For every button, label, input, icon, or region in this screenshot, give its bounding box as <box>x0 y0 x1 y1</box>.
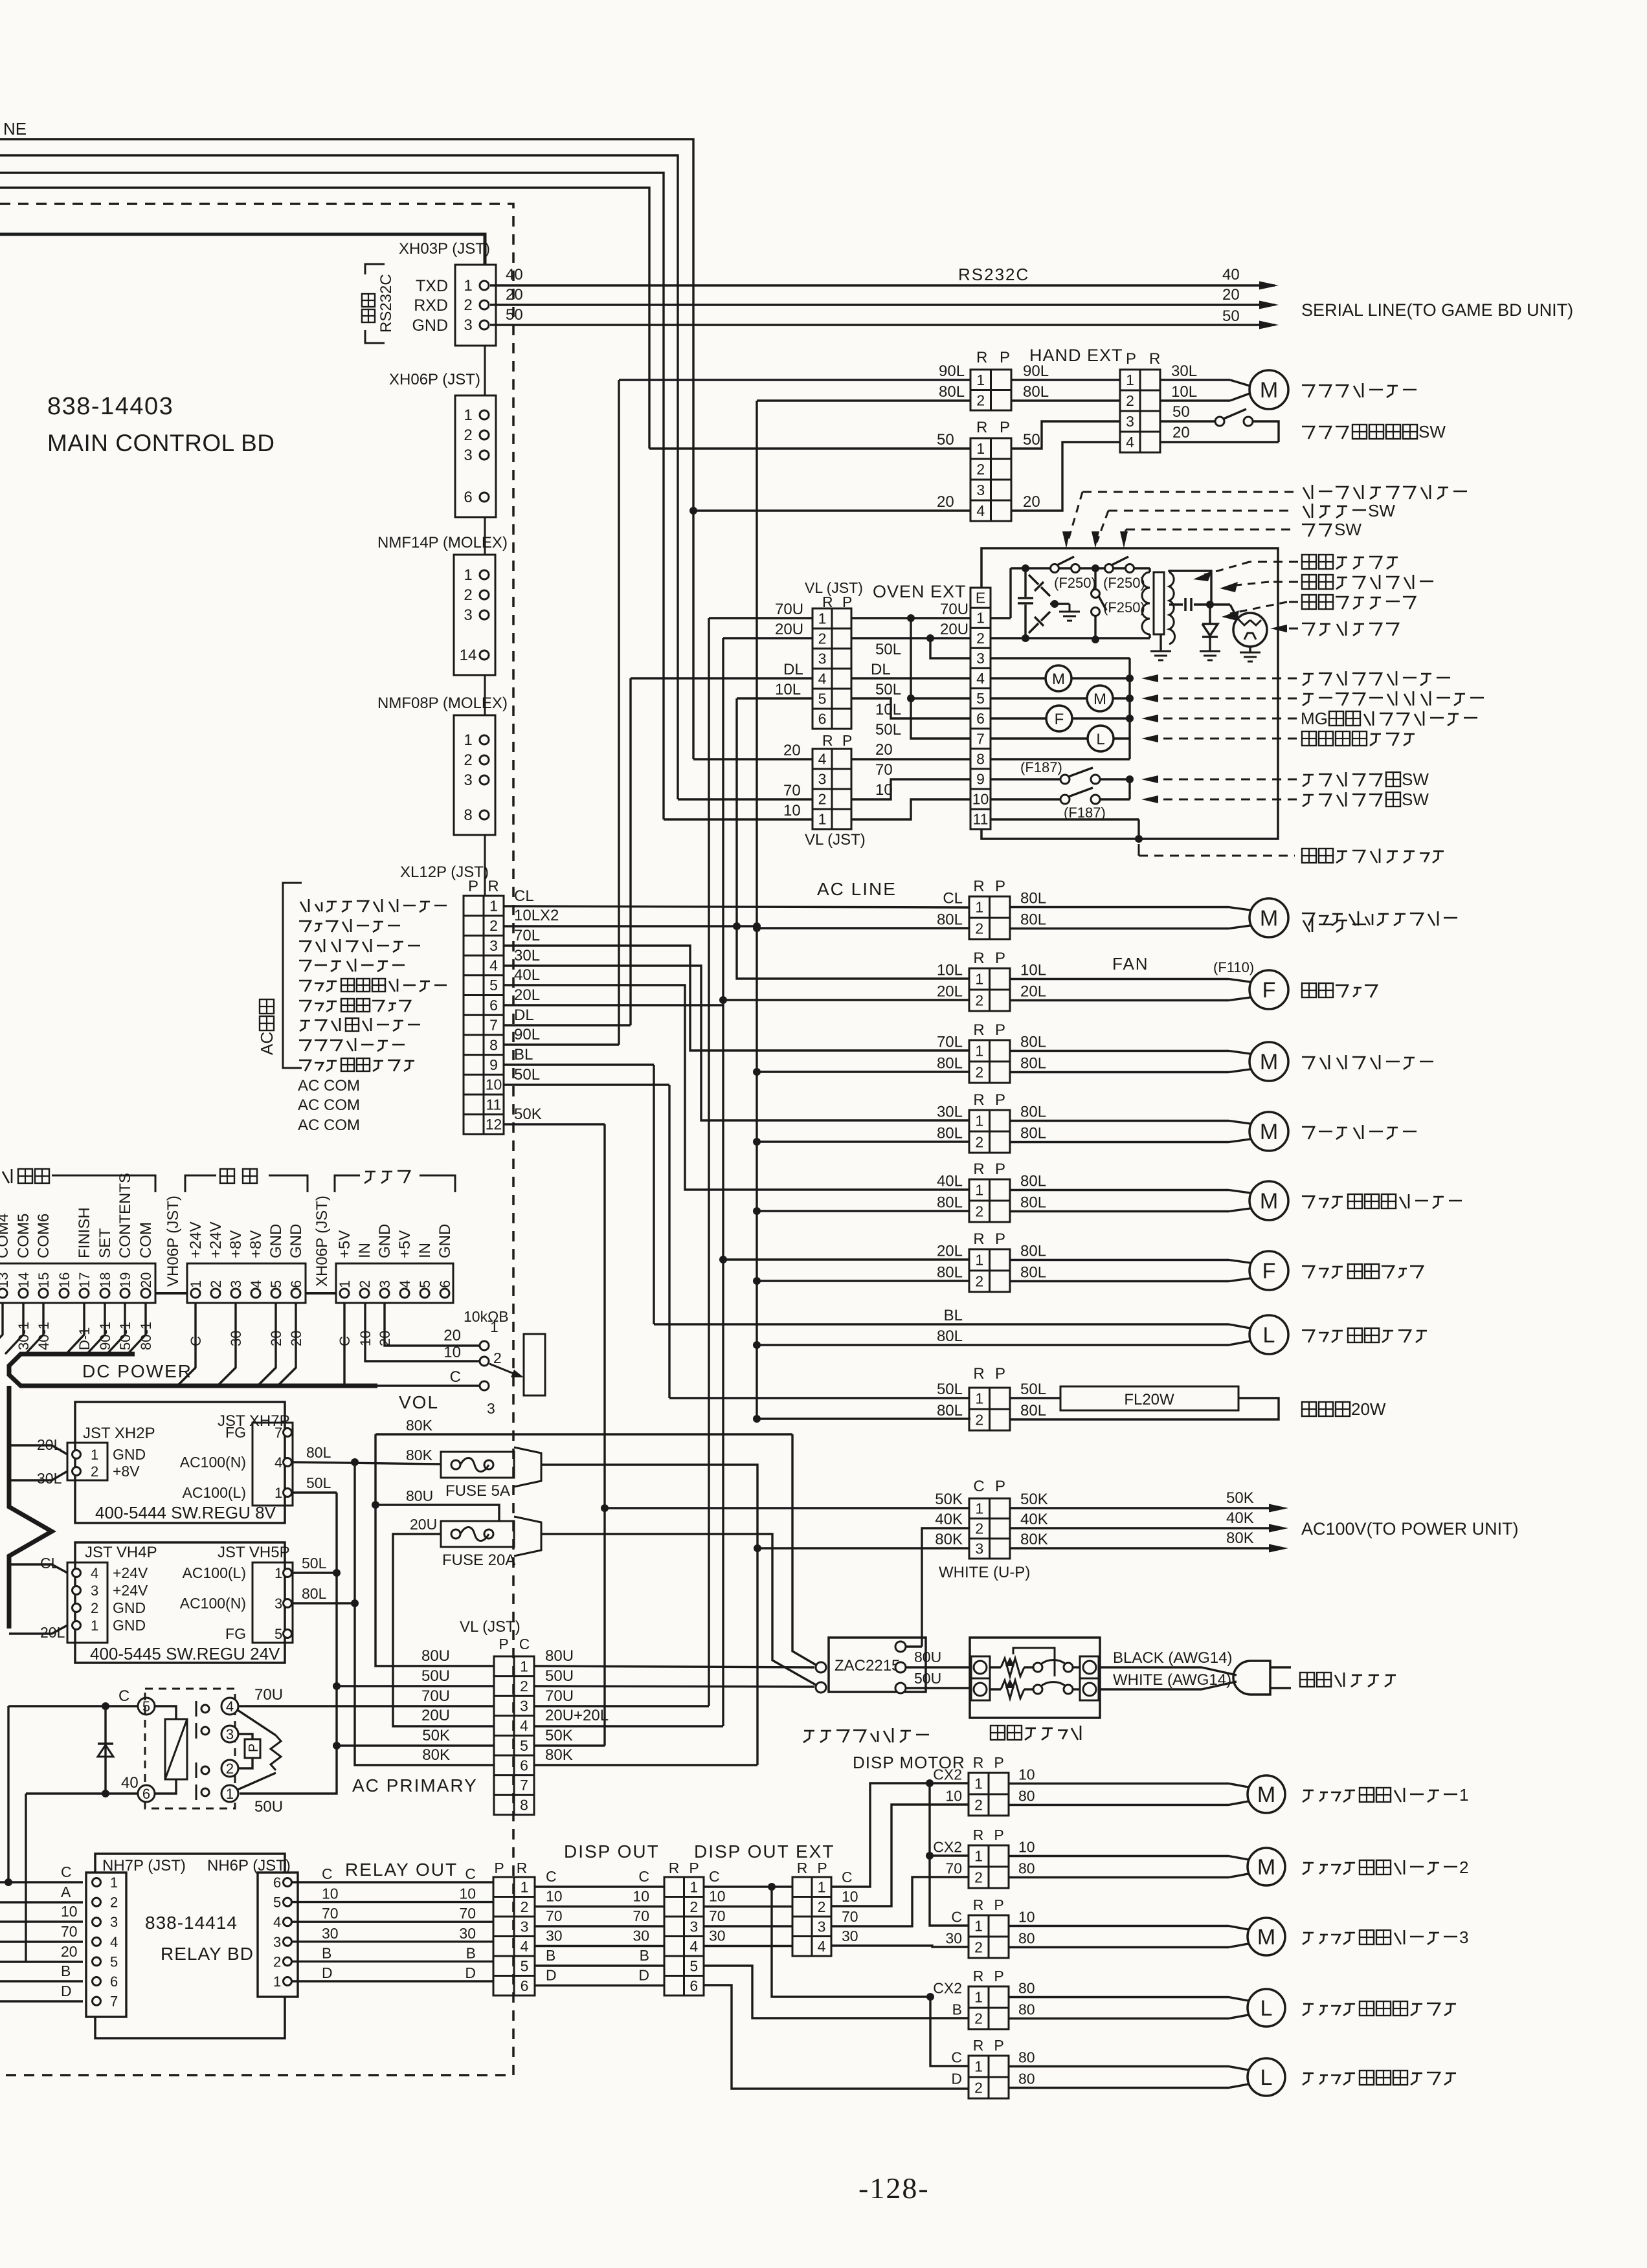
wire 50 link <box>1011 421 1120 449</box>
svg-text:3: 3 <box>377 1280 393 1288</box>
svg-text:6: 6 <box>273 1874 281 1891</box>
svg-text:1: 1 <box>976 440 985 457</box>
svg-text:M: M <box>1260 1189 1278 1214</box>
wire B to lamp1 <box>704 1966 969 2018</box>
svg-text:XH06P (JST): XH06P (JST) <box>389 371 480 388</box>
svg-text:2: 2 <box>689 1898 698 1915</box>
svg-text:VOL: VOL <box>399 1392 439 1412</box>
label ファンモーター <box>299 921 311 932</box>
svg-text:50K: 50K <box>422 1727 450 1744</box>
svg-text:AC PRIMARY: AC PRIMARY <box>352 1775 478 1795</box>
svg-text:C: C <box>546 1868 557 1885</box>
svg-text:838-14403: 838-14403 <box>47 393 174 420</box>
svg-text:WHITE (U-P): WHITE (U-P) <box>939 1564 1030 1581</box>
wire serial line 1 <box>0 139 693 759</box>
svg-text:E: E <box>976 590 985 606</box>
svg-text:20: 20 <box>61 1943 78 1960</box>
switch F187 door open <box>991 798 1061 800</box>
svg-text:C: C <box>61 1863 72 1880</box>
capacitor diagonal 1 <box>1029 575 1038 584</box>
leader レンジドアモーター <box>1159 678 1297 680</box>
svg-text:AC100(N): AC100(N) <box>180 1454 246 1471</box>
svg-text:F: F <box>1262 1259 1276 1284</box>
svg-text:80L: 80L <box>937 911 963 929</box>
svg-text:C: C <box>951 2049 962 2066</box>
svg-text:5: 5 <box>689 1957 698 1974</box>
svg-text:80L: 80L <box>1020 1243 1046 1260</box>
svg-text:1: 1 <box>226 1786 234 1802</box>
svg-text:80L: 80L <box>937 1125 963 1142</box>
svg-text:80: 80 <box>1018 2001 1035 2018</box>
svg-text:P: P <box>995 1230 1005 1248</box>
svg-text:2: 2 <box>1459 1858 1468 1877</box>
switch contacts <box>1033 1663 1042 1672</box>
svg-text:80L: 80L <box>939 383 965 401</box>
svg-text:IN: IN <box>356 1243 374 1258</box>
svg-text:30L: 30L <box>514 947 540 964</box>
svg-text:80L: 80L <box>937 1194 963 1212</box>
svg-text:4: 4 <box>818 1938 826 1955</box>
svg-text:14: 14 <box>16 1273 32 1288</box>
wire serial line 4 <box>0 188 649 449</box>
svg-text:R: R <box>797 1860 808 1876</box>
svg-text:6: 6 <box>110 1973 118 1990</box>
box microwave oven unit <box>981 548 1278 839</box>
svg-text:2: 2 <box>975 992 983 1009</box>
svg-text:P: P <box>995 1478 1005 1495</box>
svg-text:1: 1 <box>110 1874 118 1891</box>
svg-text:3: 3 <box>520 1698 528 1715</box>
svg-text:R: R <box>822 732 833 749</box>
label ハンドモーター <box>299 1040 311 1051</box>
svg-text:DL: DL <box>871 661 891 678</box>
svg-text:40: 40 <box>1222 266 1240 283</box>
label レンジ扉モーター <box>300 1020 310 1022</box>
svg-text:6: 6 <box>142 1786 150 1802</box>
svg-text:5: 5 <box>110 1953 118 1970</box>
svg-text:2: 2 <box>974 2080 983 2096</box>
svg-text:1: 1 <box>975 1043 983 1060</box>
capacitor diagonal 2 <box>1029 623 1038 633</box>
svg-text:2: 2 <box>493 1350 502 1366</box>
svg-text:10L: 10L <box>875 701 901 718</box>
wire 20L fan <box>719 996 727 1004</box>
svg-text:40L: 40L <box>937 1173 963 1190</box>
svg-text:70: 70 <box>61 1923 78 1940</box>
svg-text:+24V: +24V <box>113 1564 148 1581</box>
wire VL row2 50U right <box>535 1686 814 1687</box>
svg-text:P: P <box>995 950 1005 967</box>
svg-text:NE: NE <box>3 119 27 139</box>
svg-text:50L: 50L <box>302 1555 327 1572</box>
svg-text:B: B <box>640 1947 649 1964</box>
switch hand position SW <box>1160 420 1216 422</box>
svg-text:80K: 80K <box>422 1746 450 1764</box>
svg-text:P: P <box>1000 349 1010 366</box>
svg-text:1: 1 <box>1126 372 1134 388</box>
wire D to lamp2 <box>704 1985 969 2089</box>
wire 80L conn6 <box>753 1277 761 1285</box>
svg-text:1: 1 <box>975 971 983 988</box>
svg-text:5: 5 <box>142 1698 150 1715</box>
svg-text:2: 2 <box>464 427 472 444</box>
svg-text:D-1: D-1 <box>76 1328 93 1350</box>
svg-text:80L: 80L <box>1020 1264 1046 1282</box>
svg-text:3: 3 <box>464 447 472 464</box>
connector VH4P <box>67 1562 107 1643</box>
label アームモーター <box>299 961 311 972</box>
bracket AC出力 <box>283 883 302 1068</box>
svg-text:B: B <box>952 2001 962 2018</box>
svg-text:1: 1 <box>975 1500 983 1517</box>
svg-text:3: 3 <box>976 482 985 498</box>
svg-text:DISP OUT: DISP OUT <box>564 1841 660 1862</box>
switch right pads <box>1080 1656 1099 1678</box>
svg-text:2: 2 <box>489 917 498 934</box>
label カップ取出ランプ <box>299 1060 311 1071</box>
switch F250 vertical <box>1094 568 1096 589</box>
svg-text:D: D <box>61 1983 72 1999</box>
svg-text:10: 10 <box>61 1903 78 1920</box>
transformer HV <box>1154 572 1164 634</box>
bus DC POWER thick <box>9 1354 377 1386</box>
svg-text:B: B <box>466 1944 476 1961</box>
svg-text:1: 1 <box>975 1182 983 1199</box>
leader サーマルプロテクター <box>1082 491 1295 493</box>
svg-text:R: R <box>1149 350 1160 368</box>
svg-text:P: P <box>995 1021 1005 1039</box>
svg-text:COM4: COM4 <box>0 1214 12 1258</box>
svg-text:50L: 50L <box>875 681 901 698</box>
wires VH06P to bus <box>177 1303 196 1386</box>
svg-text:80L: 80L <box>1020 890 1046 907</box>
wire magnetron top lead <box>1237 617 1239 620</box>
svg-text:NMF08P (MOLEX): NMF08P (MOLEX) <box>377 695 508 712</box>
svg-text:2: 2 <box>818 630 827 647</box>
relay box dashed <box>145 1689 235 1808</box>
svg-text:70: 70 <box>322 1905 339 1922</box>
svg-text:4: 4 <box>818 751 827 768</box>
boundary MAIN CONTROL BD (dashed) <box>0 204 513 2075</box>
noise filter ZAC2215 <box>829 1638 926 1692</box>
svg-text:SERIAL LINE(TO GAME BD UNIT): SERIAL LINE(TO GAME BD UNIT) <box>1301 300 1573 320</box>
svg-text:VL (JST): VL (JST) <box>805 579 863 596</box>
svg-text:1: 1 <box>91 1447 98 1463</box>
svg-text:R: R <box>973 1021 984 1039</box>
svg-text:C: C <box>118 1687 129 1705</box>
svg-text:10LX2: 10LX2 <box>514 907 559 924</box>
svg-text:80L: 80L <box>1020 1125 1046 1142</box>
label ハンド位置検出 SW <box>1302 427 1314 439</box>
svg-text:CX2: CX2 <box>933 1980 962 1997</box>
wire relay C to relay bd <box>7 1706 9 1882</box>
label 電源スイッチ <box>991 1726 1005 1740</box>
svg-text:70: 70 <box>945 1860 962 1877</box>
svg-text:50U: 50U <box>914 1670 941 1687</box>
svg-text:80K: 80K <box>406 1447 433 1463</box>
svg-text:5: 5 <box>521 1957 529 1974</box>
svg-text:20L: 20L <box>514 986 540 1004</box>
wire oven row2 bus <box>991 637 1150 639</box>
svg-text:ZAC2215: ZAC2215 <box>835 1657 900 1674</box>
svg-text:P: P <box>994 1754 1003 1771</box>
leader マグネトロン <box>1288 628 1298 630</box>
svg-text:C: C <box>322 1865 333 1882</box>
svg-text:50L: 50L <box>875 721 901 739</box>
svg-text:6: 6 <box>521 1977 529 1994</box>
svg-text:20: 20 <box>506 286 523 304</box>
svg-text:P: P <box>995 1365 1005 1383</box>
wire 80L conn1 <box>753 924 761 932</box>
wire oven vertical bus <box>1128 658 1130 759</box>
svg-text:1: 1 <box>188 1280 204 1288</box>
svg-text:FINISH: FINISH <box>76 1207 93 1258</box>
svg-text:2: 2 <box>974 1939 983 1956</box>
svg-text:7: 7 <box>976 730 985 747</box>
svg-text:2: 2 <box>974 1797 983 1814</box>
wire serial line 3 <box>0 173 664 819</box>
svg-text:D: D <box>638 1967 649 1984</box>
leader モニター SW <box>1108 510 1295 512</box>
svg-text:4: 4 <box>689 1938 698 1955</box>
svg-text:5: 5 <box>489 977 498 994</box>
svg-text:40: 40 <box>506 266 523 283</box>
svg-text:R: R <box>973 1968 984 1984</box>
svg-text:C: C <box>188 1336 204 1346</box>
ground transformer <box>1160 634 1161 651</box>
svg-text:2: 2 <box>818 1898 826 1915</box>
svg-text:A: A <box>61 1884 71 1900</box>
svg-text:50: 50 <box>1023 431 1040 449</box>
label カップ取出口モーター <box>299 981 311 992</box>
svg-text:6: 6 <box>818 711 827 728</box>
svg-text:1: 1 <box>974 1775 983 1792</box>
wire 50K into AC100V <box>601 1504 609 1512</box>
svg-text:M: M <box>1052 671 1065 688</box>
svg-text:C: C <box>709 1868 720 1885</box>
svg-text:70: 70 <box>875 761 893 779</box>
svg-text:7: 7 <box>110 1994 118 2010</box>
ground capacitor midpoint <box>1069 604 1071 612</box>
svg-text:50: 50 <box>1222 307 1240 325</box>
svg-text:20: 20 <box>268 1331 284 1346</box>
motor M range door <box>991 677 1046 679</box>
svg-text:80L: 80L <box>302 1585 327 1602</box>
svg-text:TXD: TXD <box>416 277 448 295</box>
svg-text:5: 5 <box>268 1280 284 1288</box>
svg-text:4: 4 <box>976 670 985 687</box>
leader レンジドア閉 SW <box>1159 779 1297 781</box>
leader ターンテーブルモーター <box>1159 698 1297 700</box>
svg-text:8: 8 <box>520 1797 528 1814</box>
svg-text:2: 2 <box>273 1953 281 1970</box>
svg-text:RELAY OUT: RELAY OUT <box>345 1860 458 1880</box>
svg-text:P: P <box>1000 419 1010 436</box>
svg-text:C: C <box>638 1868 649 1885</box>
svg-text:20: 20 <box>937 493 954 511</box>
wire hand ext link row1 <box>1011 379 1120 381</box>
svg-text:NMF14P (MOLEX): NMF14P (MOLEX) <box>377 534 508 551</box>
wire VL row2 50U left <box>337 1685 494 1687</box>
leader 高圧トランス <box>1249 561 1298 563</box>
svg-text:GND: GND <box>113 1446 146 1463</box>
leader 電子レンジユニット <box>1138 844 1140 856</box>
svg-text:4: 4 <box>273 1914 281 1930</box>
svg-text:8: 8 <box>976 750 985 767</box>
svg-text:(F110): (F110) <box>1213 959 1254 975</box>
svg-text:P: P <box>1126 350 1136 368</box>
svg-text:10: 10 <box>459 1885 476 1902</box>
wire 20L conn6 <box>719 1256 727 1263</box>
fuse holder 20A plug <box>514 1517 541 1556</box>
svg-text:R: R <box>973 1827 984 1843</box>
svg-text:R: R <box>973 1896 984 1913</box>
svg-text:GND: GND <box>113 1599 146 1616</box>
svg-text:2: 2 <box>975 1412 983 1429</box>
bus cable run left <box>9 1386 52 1629</box>
svg-text:OVEN EXT: OVEN EXT <box>873 582 967 601</box>
svg-text:6: 6 <box>520 1757 528 1773</box>
label ノイズフィルター <box>804 1730 814 1732</box>
svg-text:70U: 70U <box>545 1687 574 1705</box>
svg-text:3: 3 <box>489 937 498 954</box>
svg-text:40: 40 <box>121 1774 139 1792</box>
wire 80L conn3 <box>753 1068 761 1076</box>
svg-text:CONTENTS: CONTENTS <box>117 1173 134 1258</box>
svg-text:DL: DL <box>514 1006 534 1024</box>
power switch box <box>970 1638 1100 1718</box>
svg-text:FUSE 20A: FUSE 20A <box>442 1551 515 1569</box>
wire C from disp out ext <box>832 1783 930 1887</box>
svg-text:R: R <box>973 878 984 895</box>
svg-text:20: 20 <box>288 1331 304 1346</box>
svg-text:10: 10 <box>842 1888 858 1905</box>
svg-text:BL: BL <box>514 1046 533 1063</box>
svg-text:80L: 80L <box>1020 1034 1046 1051</box>
svg-text:DC POWER: DC POWER <box>82 1361 192 1381</box>
node capacitor midpoint <box>1051 600 1059 608</box>
lamp L oven light <box>991 737 1088 739</box>
svg-text:1: 1 <box>818 811 827 828</box>
bracket RS232C 通信 <box>365 264 385 274</box>
svg-text:20L: 20L <box>937 1243 963 1260</box>
svg-text:2: 2 <box>464 586 472 604</box>
svg-text:20L: 20L <box>1020 983 1046 1001</box>
svg-text:2: 2 <box>975 1520 983 1537</box>
svg-text:70L: 70L <box>937 1034 963 1051</box>
junction dot C net <box>768 1883 776 1891</box>
svg-text:3: 3 <box>1126 413 1134 430</box>
svg-text:2: 2 <box>975 1134 983 1151</box>
svg-text:1: 1 <box>974 1918 983 1935</box>
svg-text:9: 9 <box>489 1056 498 1073</box>
svg-text:90L: 90L <box>514 1026 540 1043</box>
svg-text:1: 1 <box>974 1848 983 1865</box>
svg-text:R: R <box>973 1091 984 1109</box>
svg-text:P: P <box>247 1744 261 1752</box>
svg-text:1: 1 <box>818 610 827 627</box>
svg-text:10: 10 <box>783 802 801 819</box>
wires XH06P to volume <box>344 1303 480 1386</box>
svg-text:80L: 80L <box>937 1055 963 1073</box>
svg-text:F: F <box>1262 978 1276 1003</box>
svg-text:4: 4 <box>248 1280 264 1288</box>
svg-text:50K: 50K <box>514 1106 542 1123</box>
svg-text:1: 1 <box>489 897 498 914</box>
svg-text:5: 5 <box>417 1280 433 1288</box>
svg-text:10L: 10L <box>1020 962 1046 979</box>
label ハンドモーター <box>1302 385 1314 397</box>
svg-text:1: 1 <box>976 372 985 388</box>
svg-text:2: 2 <box>91 1463 98 1480</box>
svg-text:10: 10 <box>972 791 989 808</box>
svg-text:DISP OUT EXT: DISP OUT EXT <box>694 1841 835 1862</box>
wire 80U from fuse 20A <box>541 1534 816 1685</box>
wire secondary top <box>1169 571 1211 605</box>
svg-text:C: C <box>465 1865 476 1882</box>
svg-text:M: M <box>1093 691 1106 708</box>
svg-text:SW: SW <box>1402 790 1429 809</box>
svg-text:P: P <box>995 1091 1005 1109</box>
wire 40 vertical <box>25 1794 27 1962</box>
svg-text:CX2: CX2 <box>933 1766 962 1783</box>
svg-text:6: 6 <box>437 1280 453 1288</box>
svg-text:20: 20 <box>875 741 893 759</box>
svg-text:11: 11 <box>973 811 989 828</box>
wire VL row3 70U right <box>535 1705 709 1707</box>
label カップ冷却ファン <box>299 1001 311 1012</box>
svg-text:70: 70 <box>459 1905 476 1922</box>
svg-text:16: 16 <box>56 1273 73 1288</box>
svg-text:M: M <box>1257 1855 1275 1880</box>
svg-text:P: P <box>468 878 478 895</box>
wire VL row5 50K right <box>535 1744 605 1746</box>
svg-text:1: 1 <box>975 1113 983 1129</box>
svg-text:2: 2 <box>976 461 985 478</box>
svg-text:30: 30 <box>322 1925 339 1942</box>
fuse holder 5A plug <box>514 1447 541 1487</box>
capacitor HV doubler left <box>1024 568 1026 597</box>
svg-text:2: 2 <box>357 1280 373 1288</box>
svg-text:GND: GND <box>436 1224 454 1258</box>
svg-text:30: 30 <box>633 1928 649 1944</box>
svg-text:5: 5 <box>818 691 827 707</box>
svg-text:4: 4 <box>274 1454 282 1471</box>
svg-text:MAIN CONTROL BD: MAIN CONTROL BD <box>47 430 274 456</box>
svg-text:80L: 80L <box>1020 911 1046 929</box>
relay contacts <box>196 1701 197 1717</box>
svg-text:SW: SW <box>1418 422 1446 441</box>
wires DC control board to bus <box>0 1303 3 1354</box>
svg-text:80L: 80L <box>937 1264 963 1282</box>
svg-text:90L: 90L <box>1023 362 1049 380</box>
svg-text:20: 20 <box>443 1327 461 1344</box>
svg-text:1: 1 <box>1459 1785 1468 1805</box>
svg-text:C: C <box>951 1909 962 1926</box>
svg-text:12: 12 <box>486 1116 502 1133</box>
svg-text:5: 5 <box>274 1626 282 1642</box>
svg-text:3: 3 <box>464 317 472 334</box>
relay coil <box>165 1719 187 1779</box>
wire 80U vertical <box>375 1434 494 1666</box>
svg-text:10: 10 <box>1018 1766 1035 1783</box>
svg-text:L: L <box>1260 2065 1273 2090</box>
svg-text:L: L <box>1096 731 1104 748</box>
switch F250 no1 <box>1051 564 1059 573</box>
svg-text:10L: 10L <box>775 681 801 698</box>
svg-text:50K: 50K <box>1226 1489 1254 1507</box>
svg-text:CL: CL <box>514 887 534 905</box>
